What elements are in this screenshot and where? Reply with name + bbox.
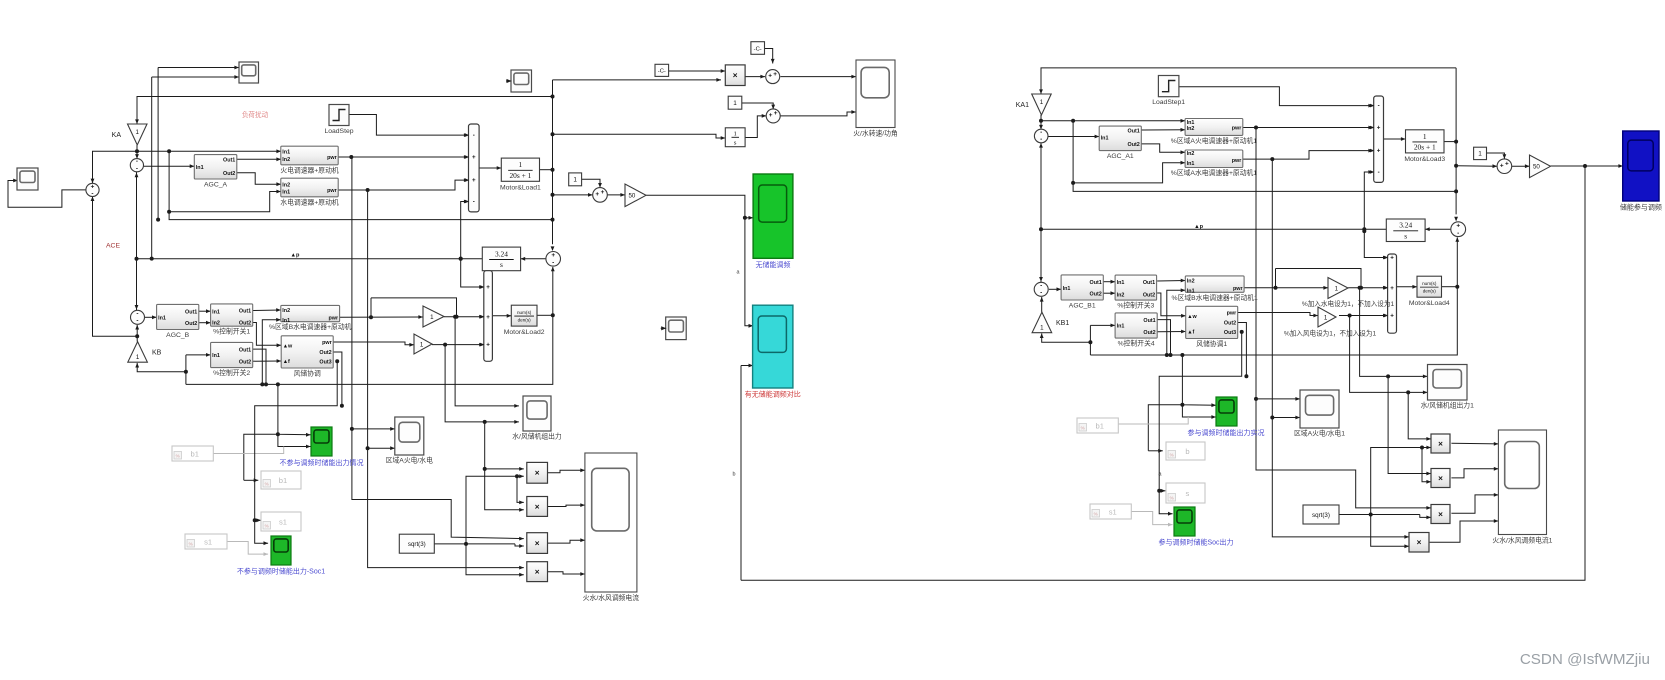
- svg-text:s1: s1: [1109, 507, 1117, 516]
- svg-text:pwr: pwr: [327, 188, 337, 194]
- svg-text:In2: In2: [1187, 278, 1195, 284]
- svg-text:b: b: [1185, 447, 1189, 456]
- svg-text:-: -: [136, 310, 138, 317]
- svg-text:KA1: KA1: [1016, 102, 1029, 109]
- svg-text:b: b: [733, 472, 736, 478]
- svg-text:1: 1: [136, 354, 140, 361]
- svg-text:den(s): den(s): [1423, 289, 1436, 294]
- svg-text:In1: In1: [1117, 324, 1125, 330]
- svg-text:%控制开关3: %控制开关3: [1117, 301, 1154, 310]
- svg-text:+: +: [472, 154, 476, 161]
- svg-text:sqrt(3): sqrt(3): [408, 541, 426, 548]
- svg-text:In2: In2: [282, 308, 290, 314]
- svg-text:1: 1: [519, 160, 523, 169]
- svg-text:Out2: Out2: [1143, 330, 1155, 336]
- svg-text:+: +: [1390, 255, 1394, 262]
- svg-text:-: -: [473, 132, 475, 139]
- svg-text:num(s): num(s): [517, 310, 532, 315]
- svg-text:火电调速器+原动机: 火电调速器+原动机: [280, 165, 339, 174]
- svg-text:风储协调1: 风储协调1: [1196, 339, 1227, 348]
- svg-text:KB: KB: [152, 350, 162, 357]
- svg-text:Out1: Out1: [1143, 280, 1155, 286]
- svg-text:火/水转速/功角: 火/水转速/功角: [853, 129, 898, 138]
- svg-text:+: +: [769, 112, 773, 119]
- svg-text:+: +: [601, 189, 605, 196]
- svg-text:+: +: [1390, 285, 1394, 292]
- svg-text:▲f: ▲f: [283, 359, 290, 365]
- svg-text:In1: In1: [212, 309, 220, 315]
- svg-text:火水/水风调频电流: 火水/水风调频电流: [583, 593, 639, 602]
- svg-text:-: -: [1040, 290, 1042, 297]
- svg-text:×: ×: [535, 469, 540, 478]
- svg-text:In1: In1: [196, 165, 204, 171]
- svg-text:负荷扰动: 负荷扰动: [242, 110, 269, 119]
- svg-text:In1: In1: [158, 316, 166, 322]
- svg-text:1: 1: [1040, 325, 1044, 332]
- svg-text:储能参与调频: 储能参与调频: [1620, 203, 1662, 212]
- svg-text:Motor&Load1: Motor&Load1: [500, 184, 541, 191]
- svg-text:参与调频时储能Soc出力: 参与调频时储能Soc出力: [1158, 538, 1233, 547]
- svg-text:+: +: [773, 71, 777, 78]
- svg-text:Motor&Load2: Motor&Load2: [504, 329, 545, 336]
- svg-text:pwr: pwr: [329, 316, 339, 322]
- svg-text:pwr: pwr: [1233, 286, 1243, 292]
- svg-text:Motor&Load4: Motor&Load4: [1409, 300, 1450, 307]
- svg-text:+: +: [551, 252, 555, 259]
- svg-text:1: 1: [136, 129, 140, 136]
- svg-text:KA: KA: [112, 132, 122, 139]
- svg-text:×: ×: [535, 567, 540, 576]
- svg-text:▲w: ▲w: [283, 344, 293, 350]
- svg-text:s: s: [734, 139, 737, 146]
- svg-text:In1: In1: [1187, 289, 1195, 295]
- svg-text:sqrt(3): sqrt(3): [1312, 512, 1330, 519]
- svg-text:%区域B水电调速器+原动机: %区域B水电调速器+原动机: [269, 322, 352, 331]
- svg-text:-C-: -C-: [658, 69, 666, 75]
- svg-text:s: s: [1186, 489, 1190, 498]
- svg-text:1: 1: [420, 341, 424, 348]
- svg-text:%: %: [1170, 496, 1174, 501]
- svg-text:1: 1: [733, 100, 737, 107]
- svg-text:+: +: [1390, 313, 1394, 320]
- svg-text:s: s: [1404, 231, 1407, 240]
- svg-text:水/风储机组出力: 水/风储机组出力: [512, 432, 562, 441]
- svg-text:In2: In2: [282, 182, 290, 188]
- svg-text:▲w: ▲w: [1187, 314, 1197, 320]
- svg-text:+: +: [486, 284, 490, 291]
- svg-text:b1: b1: [279, 476, 287, 485]
- svg-text:AGC_A: AGC_A: [204, 182, 228, 189]
- svg-text:a: a: [737, 270, 740, 276]
- svg-text:In1: In1: [1063, 286, 1071, 292]
- svg-text:+: +: [1377, 125, 1381, 132]
- svg-text:%: %: [189, 542, 193, 547]
- svg-text:LoadStep: LoadStep: [324, 128, 353, 135]
- svg-text:50: 50: [1533, 164, 1540, 171]
- svg-text:1: 1: [1335, 285, 1339, 292]
- svg-text:+: +: [486, 314, 490, 321]
- svg-text:水/风储机组出力1: 水/风储机组出力1: [1421, 401, 1474, 410]
- svg-text:有无储能调频对比: 有无储能调频对比: [745, 390, 801, 399]
- svg-text:Out1: Out1: [1128, 129, 1140, 135]
- svg-text:不参与调频时储能出力-Soc1: 不参与调频时储能出力-Soc1: [237, 567, 325, 576]
- svg-text:In1: In1: [1101, 136, 1109, 142]
- svg-text:1: 1: [430, 314, 434, 321]
- svg-text:Out2: Out2: [239, 321, 251, 327]
- svg-text:3.24: 3.24: [495, 249, 508, 258]
- svg-text:1: 1: [1423, 132, 1427, 141]
- svg-text:In2: In2: [282, 157, 290, 163]
- svg-text:Out1: Out1: [223, 158, 235, 164]
- svg-text:CSDN @IsfWMZjiu: CSDN @IsfWMZjiu: [1520, 651, 1650, 668]
- svg-text:+: +: [774, 110, 778, 117]
- svg-text:×: ×: [1438, 474, 1443, 483]
- svg-text:Out2: Out2: [1128, 142, 1140, 148]
- svg-text:+: +: [595, 191, 599, 198]
- svg-text:-: -: [1040, 282, 1042, 289]
- svg-text:火水/水风调频电流1: 火水/水风调频电流1: [1492, 536, 1552, 545]
- svg-text:▲p: ▲p: [291, 252, 301, 258]
- svg-text:In1: In1: [282, 150, 290, 156]
- svg-text:Out1: Out1: [239, 309, 251, 315]
- svg-text:pwr: pwr: [1232, 158, 1242, 164]
- svg-text:In1: In1: [1187, 161, 1195, 167]
- svg-text:-: -: [1040, 136, 1042, 143]
- svg-text:ACE: ACE: [106, 243, 120, 250]
- svg-text:+: +: [1377, 148, 1381, 155]
- svg-text:Out2: Out2: [319, 350, 331, 356]
- svg-text:▲f: ▲f: [1187, 330, 1194, 336]
- svg-text:Out2: Out2: [1090, 291, 1102, 297]
- svg-text:-: -: [136, 318, 138, 325]
- svg-text:%控制开关2: %控制开关2: [213, 368, 250, 377]
- svg-text:20s + 1: 20s + 1: [509, 171, 531, 180]
- svg-text:Out1: Out1: [185, 309, 197, 315]
- svg-text:Out2: Out2: [1224, 321, 1236, 327]
- svg-text:×: ×: [1417, 538, 1422, 547]
- svg-text:b1: b1: [1095, 421, 1103, 430]
- svg-text:+: +: [472, 177, 476, 184]
- svg-text:%区域A水电调速器+原动机1: %区域A水电调速器+原动机1: [1171, 168, 1258, 177]
- svg-text:%加入水电设为1，不加入设为1: %加入水电设为1，不加入设为1: [1302, 299, 1395, 308]
- svg-text:s: s: [500, 260, 503, 269]
- svg-text:×: ×: [1438, 510, 1443, 519]
- svg-text:%控制开关1: %控制开关1: [213, 327, 250, 336]
- svg-text:-C-: -C-: [754, 46, 762, 52]
- svg-text:%: %: [1081, 426, 1085, 431]
- svg-text:In2: In2: [1187, 126, 1195, 132]
- svg-text:%: %: [265, 482, 269, 487]
- svg-text:pwr: pwr: [1227, 311, 1237, 317]
- svg-text:Out3: Out3: [1224, 330, 1236, 336]
- svg-text:1: 1: [573, 177, 577, 184]
- svg-text:AGC_B: AGC_B: [166, 332, 190, 339]
- svg-text:%加入风电设为1，不加入设为1: %加入风电设为1，不加入设为1: [1284, 328, 1377, 337]
- svg-text:num(s): num(s): [1422, 281, 1437, 286]
- svg-text:Out2: Out2: [239, 359, 251, 365]
- svg-text:%区域B水电调速器+原动机1: %区域B水电调速器+原动机1: [1172, 293, 1259, 302]
- svg-text:In1: In1: [282, 318, 290, 324]
- svg-text:Out3: Out3: [319, 359, 331, 365]
- svg-text:-: -: [473, 199, 475, 206]
- svg-text:In1: In1: [282, 190, 290, 196]
- svg-text:LoadStep1: LoadStep1: [1152, 99, 1185, 106]
- svg-text:pwr: pwr: [322, 340, 332, 346]
- svg-text:Motor&Load3: Motor&Load3: [1404, 156, 1445, 163]
- svg-text:In2: In2: [212, 321, 220, 327]
- svg-text:%: %: [1170, 453, 1174, 458]
- svg-text:区域A火电/水电1: 区域A火电/水电1: [1294, 429, 1345, 438]
- svg-text:Out1: Out1: [1143, 318, 1155, 324]
- svg-text:▲p: ▲p: [1194, 224, 1204, 230]
- svg-text:水电调速器+原动机: 水电调速器+原动机: [280, 197, 339, 206]
- svg-text:In2: In2: [1187, 151, 1195, 157]
- svg-text:s1: s1: [279, 517, 287, 526]
- svg-text:+: +: [1500, 162, 1504, 169]
- svg-text:-: -: [1457, 230, 1459, 237]
- svg-text:-: -: [136, 165, 138, 172]
- svg-text:pwr: pwr: [1232, 126, 1242, 132]
- svg-text:%: %: [176, 454, 180, 459]
- svg-text:×: ×: [535, 502, 540, 511]
- svg-text:参与调频时储能出力实况: 参与调频时储能出力实况: [1188, 428, 1265, 437]
- svg-text:不参与调频时储能出力情况: 不参与调频时储能出力情况: [280, 458, 364, 467]
- svg-text:AGC_A1: AGC_A1: [1107, 153, 1134, 160]
- svg-text:+: +: [486, 342, 490, 349]
- svg-text:无储能调频: 无储能调频: [756, 260, 791, 269]
- svg-text:+: +: [1456, 223, 1460, 230]
- svg-text:×: ×: [1438, 439, 1443, 448]
- svg-text:1: 1: [1478, 151, 1482, 158]
- svg-text:s1: s1: [204, 537, 212, 546]
- svg-text:%控制开关4: %控制开关4: [1118, 339, 1155, 348]
- svg-text:In1: In1: [212, 353, 220, 359]
- svg-text:×: ×: [733, 71, 738, 80]
- svg-text:1: 1: [1040, 99, 1044, 106]
- svg-text:+: +: [91, 184, 95, 191]
- svg-text:%区域A火电调速器+原动机1: %区域A火电调速器+原动机1: [1171, 136, 1258, 145]
- svg-text:KB1: KB1: [1056, 320, 1069, 327]
- svg-text:1: 1: [734, 130, 737, 137]
- svg-text:-: -: [136, 158, 138, 165]
- svg-text:1: 1: [1324, 314, 1328, 321]
- svg-text:风储协调: 风储协调: [294, 369, 321, 378]
- svg-text:b1: b1: [190, 449, 198, 458]
- svg-text:+: +: [768, 73, 772, 80]
- svg-text:-: -: [1040, 129, 1042, 136]
- svg-text:-: -: [552, 259, 554, 266]
- svg-text:-: -: [1378, 103, 1380, 110]
- svg-text:Out2: Out2: [1143, 293, 1155, 299]
- svg-text:20s + 1: 20s + 1: [1414, 143, 1436, 152]
- svg-text:Out1: Out1: [1090, 280, 1102, 286]
- svg-text:×: ×: [535, 539, 540, 548]
- svg-text:Out2: Out2: [185, 321, 197, 327]
- svg-text:%: %: [1094, 512, 1098, 517]
- svg-text:+: +: [1505, 160, 1509, 167]
- svg-text:In2: In2: [1117, 293, 1125, 299]
- svg-text:In1: In1: [1117, 280, 1125, 286]
- svg-text:区域A火电/水电: 区域A火电/水电: [386, 456, 433, 465]
- svg-text:den(s): den(s): [518, 318, 531, 323]
- svg-text:-: -: [91, 191, 93, 198]
- svg-text:50: 50: [628, 193, 635, 200]
- svg-text:%: %: [265, 524, 269, 529]
- svg-text:AGC_B1: AGC_B1: [1069, 303, 1096, 310]
- svg-text:Out2: Out2: [223, 171, 235, 177]
- svg-text:3.24: 3.24: [1399, 221, 1412, 230]
- svg-text:Out1: Out1: [239, 347, 251, 353]
- svg-text:-: -: [1378, 169, 1380, 176]
- svg-text:pwr: pwr: [327, 155, 337, 161]
